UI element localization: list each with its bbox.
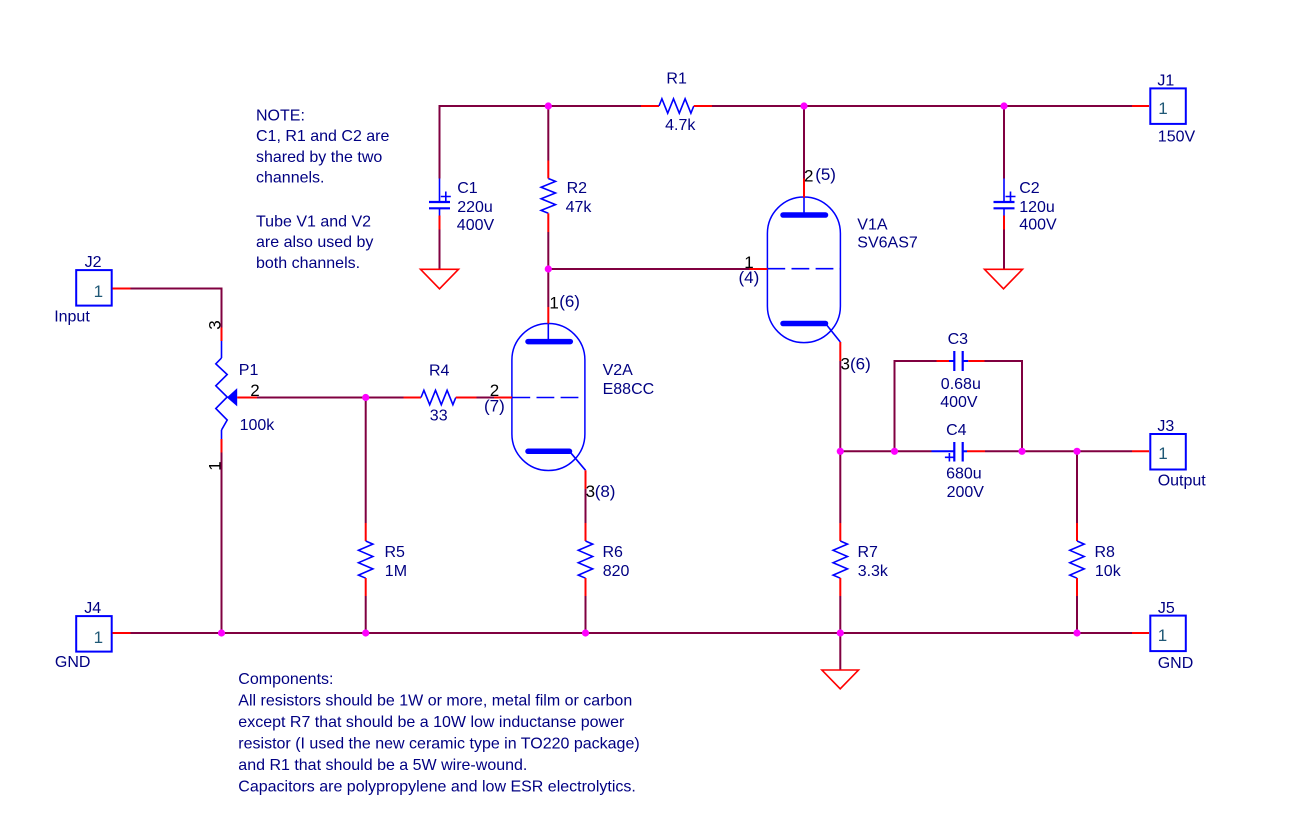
tube V2A cathode pin: [585, 470, 587, 489]
svg-text:150V: 150V: [1158, 128, 1196, 145]
wire R8 bottom to rail: [1076, 596, 1078, 633]
svg-text:1: 1: [1158, 444, 1167, 463]
wire R6 bottom to rail: [585, 596, 587, 633]
svg-text:J5: J5: [1158, 600, 1175, 617]
svg-text:R2: R2: [567, 180, 588, 197]
svg-text:2: 2: [804, 167, 813, 186]
tube V2A plate lead: [547, 307, 549, 324]
potentiometer P1: [205, 320, 275, 470]
resistor R4: [404, 363, 477, 425]
svg-text:J4: J4: [84, 600, 101, 617]
connector J3: [1132, 418, 1206, 489]
resistor R6: [578, 523, 629, 596]
wire R5 bottom to rail: [365, 596, 367, 633]
tube V1A plate lead: [803, 179, 805, 198]
connector J4: [55, 600, 131, 671]
capacitor C2: [994, 179, 1057, 234]
node top rail / R2: [545, 102, 552, 109]
note text block: [256, 107, 390, 272]
wire R4 to V2A pin2: [477, 397, 495, 399]
wire R7 branch: [839, 451, 841, 523]
resistor R1: [641, 70, 712, 134]
wire C1 lower lead to ground: [439, 230, 441, 270]
tube V1A cathode diagonal: [826, 324, 841, 343]
svg-text:120u: 120u: [1019, 199, 1055, 216]
tube V2A cathode diagonal: [570, 451, 586, 470]
svg-text:are also used by: are also used by: [256, 234, 373, 251]
wire output rail right part: [985, 450, 1132, 452]
svg-text:both channels.: both channels.: [256, 255, 360, 272]
tube V2A grid dashes: [512, 397, 585, 399]
resistor R8: [1070, 523, 1122, 596]
svg-text:J2: J2: [85, 254, 102, 271]
svg-text:GND: GND: [55, 654, 91, 671]
svg-text:and R1 that should be a 5W wir: and R1 that should be a 5W wire-wound.: [238, 757, 527, 774]
svg-text:1: 1: [94, 282, 103, 301]
svg-text:(4): (4): [739, 268, 760, 287]
node top rail / V1A plate: [800, 102, 807, 109]
svg-text:R5: R5: [385, 544, 406, 561]
svg-text:Tube V1 and V2: Tube V1 and V2: [256, 213, 371, 230]
resistor R5: [359, 523, 408, 596]
tube V1A cathode bar: [783, 321, 826, 327]
svg-text:2: 2: [250, 381, 259, 400]
svg-text:680u: 680u: [946, 466, 982, 483]
svg-text:3.3k: 3.3k: [858, 563, 889, 580]
tube V1A: [739, 165, 918, 374]
svg-text:47k: 47k: [566, 199, 593, 216]
svg-text:NOTE:: NOTE:: [256, 107, 305, 124]
wire rail to ground under R7: [839, 633, 841, 670]
node output rail / C3 right: [1018, 448, 1025, 455]
svg-text:Components:: Components:: [238, 671, 333, 688]
svg-text:R7: R7: [858, 544, 879, 561]
wire R7 bottom to rail: [839, 596, 841, 633]
wire R2 drop from top rail: [547, 106, 549, 161]
svg-text:1: 1: [205, 461, 224, 470]
svg-text:J3: J3: [1157, 418, 1174, 435]
svg-text:1: 1: [1158, 626, 1167, 645]
tube V1A cathode pin: [839, 342, 841, 361]
tube V1A grid dashes: [767, 268, 840, 270]
connector J5: [1132, 600, 1193, 672]
wire R8 branch: [1076, 451, 1078, 523]
svg-text:P1: P1: [239, 362, 259, 379]
node top rail / C2: [1000, 102, 1007, 109]
svg-text:SV6AS7: SV6AS7: [857, 234, 918, 251]
connector J1: [1132, 73, 1195, 146]
capacitor C1: [429, 179, 494, 234]
wire V1A plate drop: [803, 106, 805, 179]
svg-text:J1: J1: [1157, 73, 1174, 90]
svg-text:E88CC: E88CC: [603, 381, 655, 398]
tube V2A grid pin lead: [494, 397, 512, 399]
wire C2 lower lead to ground: [1003, 230, 1005, 270]
svg-text:V2A: V2A: [603, 362, 634, 379]
svg-text:1M: 1M: [385, 563, 407, 580]
svg-text:C3: C3: [948, 331, 969, 348]
node P1 wiper / R5: [362, 394, 369, 401]
components text block: [238, 671, 639, 796]
svg-text:33: 33: [430, 407, 448, 424]
svg-text:C1, R1 and C2 are: C1, R1 and C2 are: [256, 128, 390, 145]
svg-text:3: 3: [586, 482, 595, 501]
svg-text:except R7 that should be a 10W: except R7 that should be a 10W low induc…: [238, 714, 625, 731]
wire grid rail R2 to V1A pin1: [548, 268, 749, 270]
svg-text:220u: 220u: [457, 199, 493, 216]
svg-text:GND: GND: [1158, 655, 1194, 672]
svg-text:All resistors should be 1W or: All resistors should be 1W or more, meta…: [238, 693, 632, 710]
svg-text:V1A: V1A: [857, 217, 888, 234]
svg-text:R8: R8: [1095, 544, 1116, 561]
capacitor C3: [937, 331, 985, 411]
svg-text:Input: Input: [54, 309, 90, 326]
resistor R7: [833, 523, 889, 596]
svg-text:1: 1: [94, 628, 103, 647]
connector J2: [54, 254, 130, 326]
svg-text:3: 3: [205, 320, 224, 329]
svg-text:3: 3: [841, 355, 850, 374]
svg-text:R4: R4: [429, 363, 450, 380]
svg-text:Capacitors are polypropylene a: Capacitors are polypropylene and low ESR…: [238, 779, 636, 796]
svg-text:channels.: channels.: [256, 170, 325, 187]
wire top rail: [440, 106, 1133, 179]
svg-text:R1: R1: [666, 70, 687, 87]
svg-text:shared by the two: shared by the two: [256, 149, 382, 166]
wire V1A cathode down to output rail: [839, 361, 841, 451]
svg-text:(8): (8): [595, 482, 616, 501]
node output rail / R8: [1073, 448, 1080, 455]
wire C3 loop left leg: [895, 361, 937, 451]
node output rail / C3 left: [891, 448, 898, 455]
svg-text:(5): (5): [815, 165, 836, 184]
tube V1A plate bar: [783, 212, 826, 218]
svg-text:C4: C4: [946, 422, 967, 439]
ground under C2: [985, 269, 1023, 289]
svg-text:0.68u: 0.68u: [941, 376, 981, 393]
svg-text:100k: 100k: [240, 417, 276, 434]
svg-text:resistor (I used the new ceram: resistor (I used the new ceramic type in…: [238, 736, 639, 753]
svg-text:400V: 400V: [1019, 216, 1057, 233]
wire bottom rail: [131, 632, 1133, 634]
node bottom rail / P1: [218, 629, 225, 636]
tube V1A grid pin lead: [750, 268, 768, 270]
wire V2A cathode to R6: [585, 489, 587, 523]
svg-text:C1: C1: [457, 180, 478, 197]
node output rail / R7: [837, 448, 844, 455]
svg-text:10k: 10k: [1095, 563, 1122, 580]
svg-text:C2: C2: [1019, 180, 1040, 197]
tube V2A cathode bar: [528, 449, 570, 455]
svg-text:400V: 400V: [457, 217, 495, 234]
resistor R2: [541, 161, 592, 270]
capacitor C4: [932, 422, 986, 501]
wire R5 branch top: [365, 398, 367, 524]
tube V2A plate bar: [528, 339, 570, 345]
svg-text:1: 1: [1158, 99, 1167, 118]
wire J2 to P1 pin3: [131, 289, 222, 328]
svg-text:R6: R6: [603, 544, 624, 561]
svg-text:1: 1: [549, 293, 558, 312]
svg-text:4.7k: 4.7k: [665, 117, 696, 134]
svg-text:(6): (6): [850, 354, 871, 373]
wire output rail left part: [840, 450, 931, 452]
svg-text:(6): (6): [559, 292, 580, 311]
node bottom rail / R5: [362, 629, 369, 636]
wire C2 drop: [1003, 106, 1005, 179]
svg-text:820: 820: [603, 563, 630, 580]
tube V2A: [484, 292, 654, 501]
ground under C1: [421, 269, 459, 289]
node R2 / grid rail: [545, 265, 552, 272]
node bottom rail / R8: [1073, 629, 1080, 636]
wire P1 wiper to R4: [257, 397, 404, 399]
svg-text:(7): (7): [484, 396, 505, 415]
wire R2 junction down to V2A pin1: [547, 269, 549, 307]
node bottom rail / R6: [582, 629, 589, 636]
svg-text:Output: Output: [1158, 472, 1207, 489]
svg-text:400V: 400V: [940, 394, 978, 411]
node bottom rail / R7: [837, 629, 844, 636]
wire C3 loop right leg: [981, 361, 1022, 451]
svg-text:200V: 200V: [947, 484, 985, 501]
wire P1 pin1 to bottom rail: [221, 453, 223, 634]
ground under R7: [822, 670, 859, 689]
